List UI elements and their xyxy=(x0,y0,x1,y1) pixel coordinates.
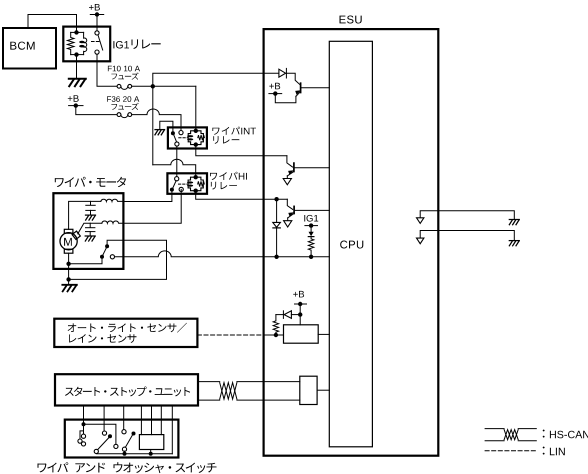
wire SW2 from start-stop unit xyxy=(103,406,105,432)
wire node SW-A down branch xyxy=(83,424,85,434)
legend LIN dashed line xyxy=(485,450,536,452)
switch common rail xyxy=(96,453,172,455)
transistor Q2 base lead xyxy=(287,199,292,209)
wire motor LO winding line xyxy=(69,201,101,229)
wire LIN transceiver to CPU xyxy=(318,333,329,335)
wire park switch ground contact to motor ground xyxy=(69,240,167,279)
transistor Q1 base lead xyxy=(287,156,293,167)
diode D3 (to sense rail) xyxy=(273,222,281,228)
relay K3 link (dashed) xyxy=(179,183,188,185)
relay K3 coil top node xyxy=(194,175,198,179)
relay K3 wiper HI relay box xyxy=(167,173,207,194)
ground arrow Q2 (open triangle) xyxy=(284,221,292,227)
ground INT relay contact xyxy=(155,130,165,135)
transistor Q1 collector wire to CPU xyxy=(294,167,329,169)
node A junction xyxy=(151,84,155,88)
wire motor bottom brush xyxy=(68,253,70,264)
transistor Q2 emitter xyxy=(288,212,294,218)
CPU box xyxy=(329,41,372,447)
coil in relay K1 xyxy=(84,32,87,54)
motor brush top xyxy=(64,229,73,233)
wire +B node to LIN transceiver xyxy=(299,315,301,325)
transistor Q1 emitter xyxy=(287,170,294,176)
ground capacitor C2 xyxy=(85,236,95,241)
relay K1 coil bottom node xyxy=(74,52,78,56)
wire relay K1 contact to fuse F10 xyxy=(97,54,117,86)
transistor Q2 base bar xyxy=(293,206,295,213)
wire contact a3 branch xyxy=(80,431,84,439)
+B tap for IG1 relay contact xyxy=(90,12,103,16)
wire LIN inside ESU xyxy=(264,334,284,336)
relay K3 contact common terminal xyxy=(170,188,174,192)
wire SW1 from start-stop unit xyxy=(83,406,85,425)
auto light / rain sensor box xyxy=(54,319,197,347)
ground capacitor C1 xyxy=(86,215,96,220)
motor brush bottom xyxy=(64,249,73,253)
wire motor third brush diagonal xyxy=(78,223,102,234)
node B junction xyxy=(274,197,278,201)
capacitor C1 ground lead xyxy=(90,210,92,214)
resistor R1 (IG1 pull) xyxy=(308,237,313,257)
relay K1 contact movable arm xyxy=(98,35,103,50)
switch contact b1 xyxy=(102,431,106,435)
wire to HI relay coil (hops INT contact wire) xyxy=(153,159,196,176)
wire QA emitter to +B xyxy=(275,94,296,103)
wire +B to IG1 relay contact xyxy=(96,15,98,32)
relay K3 contact feed terminal xyxy=(175,177,179,181)
wire diode D1 to transistor QA xyxy=(286,73,300,84)
wire node SW-A right branch xyxy=(84,424,116,444)
wire park switch sense to ESU (hops ground wire) xyxy=(115,251,330,257)
switch contact a1 xyxy=(114,444,118,448)
ground wiper motor xyxy=(62,285,77,292)
wire HI contact output to motor HI winding xyxy=(123,189,181,223)
relay K1 IG1 relay box xyxy=(63,27,110,62)
switch contact a4 xyxy=(81,442,85,446)
relay K2 contact output terminal xyxy=(175,142,179,146)
relay K3 coil bottom node xyxy=(194,189,198,193)
capacitor C1 xyxy=(86,205,95,210)
wire node A down to HI relay feed (vertical) xyxy=(152,86,154,165)
diode D1 xyxy=(279,68,287,78)
wire +B tap LIN xyxy=(299,304,301,315)
wire arm2 contact to common rail xyxy=(124,451,126,454)
wire BCM to IG1 relay coil xyxy=(28,15,77,31)
IG1 label xyxy=(304,215,318,222)
wire CAN-H to ESU xyxy=(237,381,264,383)
wiper HI relay label line2 xyxy=(211,182,237,190)
wiper and washer switch box xyxy=(65,420,179,458)
junction diode D3 on sense rail xyxy=(274,255,278,259)
wire motor to park switch common xyxy=(69,259,102,264)
transistor QA emitter xyxy=(295,90,301,96)
relay K1 contact link (dashed) xyxy=(92,41,101,43)
chassis ground line1 xyxy=(509,220,519,225)
relay K2 contact common terminal xyxy=(171,131,175,135)
relay K2 contact arm xyxy=(174,134,177,142)
wire SW3 from start-stop unit xyxy=(123,406,125,430)
sensor label line2 xyxy=(69,334,136,343)
+B tap 2 xyxy=(69,103,83,107)
fuse F36 value label xyxy=(107,96,139,102)
switch contact c1 xyxy=(122,430,126,434)
legend HS-CAN twisted pair xyxy=(485,428,504,430)
ESU box xyxy=(264,29,439,456)
relay K1 top connector xyxy=(71,31,84,33)
wire motor node to ground xyxy=(68,264,70,285)
fuse F10 name label xyxy=(111,73,138,80)
wire INT coil top to node A net xyxy=(195,86,197,131)
motor bottom node 1 xyxy=(66,262,70,266)
relay K2 contact feed terminal xyxy=(179,131,183,135)
wire CAN-L from start-stop unit xyxy=(198,399,220,401)
switch contact a3 xyxy=(78,439,82,443)
+B label QA xyxy=(269,83,280,90)
diode D4 (filled) xyxy=(308,232,314,237)
ground arrow line1 (open triangle) xyxy=(417,218,424,224)
capacitor C1 lead xyxy=(90,201,92,205)
legend HS-CAN text xyxy=(543,430,588,439)
relay K3 coil assembly xyxy=(188,177,203,191)
switch arm 2 pivot xyxy=(132,432,136,436)
relay K1 contact top terminal xyxy=(95,31,99,35)
relay K2 link (dashed) xyxy=(179,137,188,139)
wire node A up to ESU diode xyxy=(153,73,279,86)
resistor R2 (LIN pull-up) xyxy=(273,315,278,335)
node SW-A junction xyxy=(82,422,86,426)
relay K3 contact arm xyxy=(173,181,177,189)
wire SW6 from start-stop unit xyxy=(160,406,162,435)
relay K1 bottom connector xyxy=(71,54,84,56)
junction LIN node xyxy=(274,333,278,337)
LIN transceiver block U2 xyxy=(284,325,319,343)
park switch arm xyxy=(103,247,107,255)
IG1 relay label xyxy=(113,39,160,49)
junction arm2 on rail xyxy=(123,452,127,456)
wire diode D3 to sense rail xyxy=(276,228,278,257)
park switch common contact xyxy=(100,255,104,259)
transistor QA collector wire to CPU xyxy=(301,87,330,89)
wiper motor label xyxy=(55,177,126,187)
wire CAN-L to ESU xyxy=(237,399,264,401)
IG1 tap xyxy=(305,223,318,227)
wire node A to INT coil (horizontal) xyxy=(153,85,196,87)
switch arm 2 contact xyxy=(122,447,126,451)
ground IG1 relay coil xyxy=(69,79,86,86)
ESU label xyxy=(340,16,362,24)
start-stop unit box xyxy=(55,374,198,405)
capacitor C2 xyxy=(86,228,95,232)
fuse F10 value label xyxy=(108,66,140,72)
junction resistor R1 on sense rail xyxy=(309,255,313,259)
relay K2 coil bottom node xyxy=(194,142,198,146)
wire Q1 emitter to ground arrow xyxy=(286,176,288,178)
wiper INT relay label line2 xyxy=(213,136,239,144)
wire fuse F36 to INT relay contact (hops node-A wire) xyxy=(132,109,181,130)
wire SW5 from start-stop unit xyxy=(151,406,153,435)
ground arrow Q1 (open triangle) xyxy=(283,179,291,185)
transistor QA base bar xyxy=(300,83,302,92)
wire CAN-H ESU segment xyxy=(264,381,300,383)
wire CAN transceiver to CPU xyxy=(317,389,329,391)
wire relay K1 coil to ground xyxy=(76,57,78,79)
wire washer block to rail xyxy=(150,450,152,454)
+B label 1 xyxy=(89,4,100,11)
wire ground to INT contact common xyxy=(160,121,173,132)
inductor L1 xyxy=(101,199,124,201)
wiper motor box xyxy=(53,193,123,269)
wiper HI relay label line1 xyxy=(210,172,247,180)
switch arm 1 contact xyxy=(94,449,98,453)
ESU ground line 1 xyxy=(420,211,514,220)
transistor Q1 base bar xyxy=(293,163,295,171)
wire fuse F10 to node A xyxy=(132,85,153,87)
wire HI coil bottom to ESU transistor Q2 xyxy=(196,191,288,200)
washer switch block xyxy=(139,435,163,450)
park switch sense contact xyxy=(110,255,114,259)
wire INT contact output to HI contact feed xyxy=(176,146,178,177)
CPU label xyxy=(340,241,363,249)
ground arrow line2 (open triangle) xyxy=(417,238,424,244)
capacitor C2 ground lead xyxy=(89,232,91,236)
relay K1 coil+resistor top node xyxy=(74,30,78,34)
wire CAN-H from start-stop unit xyxy=(198,381,220,383)
+B label LIN xyxy=(293,291,304,298)
sensor label line1 xyxy=(68,323,187,333)
fuse F36 xyxy=(117,113,132,118)
relay K3 contact output terminal xyxy=(179,187,183,191)
wire CAN-L ESU segment xyxy=(264,399,300,401)
relay K2 coil top node xyxy=(194,129,198,133)
start-stop unit label xyxy=(65,387,190,397)
wire LIN dashed (sensor to ESU) xyxy=(197,334,263,336)
relay K1 contact bottom terminal xyxy=(95,50,99,54)
park switch ground contact xyxy=(105,244,109,248)
fuse F10 xyxy=(117,84,132,89)
transistor Q2 collector wire to CPU xyxy=(294,209,329,211)
wire Q2 emitter to ground arrow xyxy=(287,218,289,221)
legend LIN text xyxy=(543,447,565,456)
wiper INT relay label line1 xyxy=(212,127,256,135)
motor M letter xyxy=(64,238,72,246)
wiper and washer switch caption xyxy=(38,462,217,473)
capacitor C2 lead xyxy=(89,223,91,227)
diode D2 xyxy=(283,311,291,319)
wire IG1 tap to diode D4 xyxy=(310,226,312,232)
relay K2 wiper INT relay box xyxy=(168,127,207,148)
wire resistor R2 corner to diode D2 xyxy=(276,314,284,316)
motor bottom node 2 xyxy=(66,277,70,281)
chassis ground line2 xyxy=(509,241,519,246)
fuse F36 name label xyxy=(111,103,138,110)
ESU ground line 2 xyxy=(420,231,514,241)
resistor in relay K1 xyxy=(67,32,74,54)
CAN twisted pair symbol xyxy=(220,383,237,400)
wire INT coil bottom to ESU transistor Q1 xyxy=(196,145,287,156)
wire +B2 to fuse F36 xyxy=(76,106,117,115)
junction washer block on rail xyxy=(149,452,153,456)
motor third brush tab xyxy=(72,231,80,239)
wire node B to diode D3 xyxy=(276,199,278,222)
BCM box xyxy=(3,28,56,69)
+B node LIN xyxy=(298,312,302,316)
+B tap LIN xyxy=(295,302,307,306)
wire HI contact common to motor LO winding xyxy=(123,190,171,202)
+B tap QA xyxy=(269,91,282,95)
relay K2 coil assembly xyxy=(188,131,203,145)
+B label 2 xyxy=(68,95,79,102)
switch arm 1 xyxy=(97,438,109,451)
inductor L2 xyxy=(102,221,124,223)
switch contact a2 xyxy=(81,434,85,438)
switch arm 2 xyxy=(125,435,132,448)
motor M armature circle xyxy=(60,233,77,250)
CAN transceiver block U3 xyxy=(300,376,317,404)
BCM label xyxy=(10,42,34,50)
wire diode D2 to +B node xyxy=(291,314,300,316)
wire rail to start-stop unit xyxy=(171,406,173,454)
switch arm 1 pivot xyxy=(108,434,112,438)
wire SW4 from start-stop unit xyxy=(140,406,142,435)
